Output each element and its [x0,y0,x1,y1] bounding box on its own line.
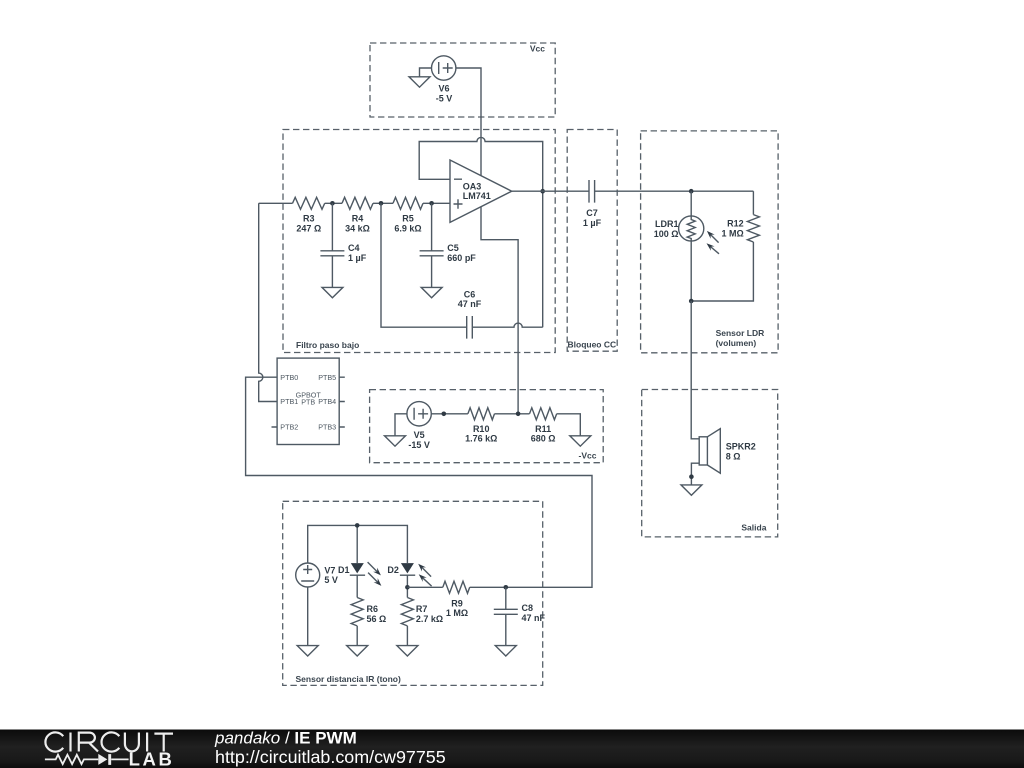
svg-text:V6: V6 [438,83,449,93]
V5 labels [408,430,430,450]
OA3 labels [463,181,491,201]
resistor R4 [342,197,373,209]
wire R9 to C8 node [470,586,506,588]
svg-text:680 Ω: 680 Ω [531,434,556,444]
node dot op-amp output [540,189,545,194]
R3 labels [296,214,321,234]
svg-text:R11: R11 [535,424,551,434]
svg-text:Salida: Salida [741,523,766,533]
pin PTB2 label [280,423,298,432]
svg-text:http://circuitlab.com/cw97755: http://circuitlab.com/cw97755 [215,747,446,767]
svg-text:-Vcc: -Vcc [579,451,597,461]
C4 labels [348,243,367,263]
svg-text:Sensor LDR: Sensor LDR [716,328,765,338]
svg-text:C7: C7 [586,208,598,218]
ground (C5) [421,287,442,297]
Filtro paso bajo label [296,340,359,350]
svg-text:OA3: OA3 [463,181,482,191]
svg-text:1 MΩ: 1 MΩ [446,608,468,618]
CircuitLab logo resistor-diode line [45,754,129,765]
capacitor C6 wire [381,203,543,338]
svg-text:R6: R6 [367,604,379,614]
resistor R5 [393,197,423,209]
svg-text:34 kΩ: 34 kΩ [345,223,370,233]
wire D2 node to R9 [407,586,442,588]
node dot LDR bottom [689,299,694,304]
svg-text:100 Ω: 100 Ω [654,229,679,239]
pin PTB0 label [280,373,298,382]
wire V6 to ground [420,68,432,77]
wire R7 to ground [406,626,408,646]
Sensor distancia IR (tono) dashed box [283,501,543,685]
svg-text:56 Ω: 56 Ω [367,614,387,624]
node dot LDR top [689,189,694,194]
Sensor LDR (volumen) label [716,328,765,348]
ground (V5) [385,436,406,446]
svg-text:LAB: LAB [129,748,175,768]
svg-text:LM741: LM741 [463,191,491,201]
svg-text:Vcc: Vcc [530,44,545,54]
svg-text:247 Ω: 247 Ω [296,223,321,233]
node dot D1 top [355,523,360,528]
svg-text:6.9 kΩ: 6.9 kΩ [394,223,421,233]
wire input rail segments [259,202,450,204]
wire V6 output down to op-amp V+ [456,68,481,176]
node dot R5/op-amp/C5 [429,201,434,206]
Filtro paso bajo dashed box [283,130,555,353]
node dot after V5 [442,412,447,417]
svg-text:(volumen): (volumen) [716,338,757,348]
R9 labels [446,598,468,618]
svg-text:PTB1: PTB1 [280,397,298,406]
-Vcc dashed box [370,390,604,463]
node dot above speaker ground [689,474,694,479]
node dot D2/R7/R9 [405,585,410,590]
LDR1 light arrows [707,231,720,254]
GPBOT labels [296,390,322,406]
D1 label [338,565,350,575]
C6 labels [458,289,482,309]
R10 labels [465,424,497,444]
R11 labels [531,424,556,444]
svg-text:PTB3: PTB3 [318,423,336,432]
svg-text:-15 V: -15 V [408,440,430,450]
node dot R3/R4/C4 [330,201,335,206]
resistor R6 [351,598,363,626]
CircuitLab logo text CIRCUIT (stroked) [45,732,173,751]
svg-text:PTB2: PTB2 [280,423,298,432]
wire input rail down to PTB1 (hop over PTB0 wire) [259,203,277,401]
connector GPBOT PTB [272,358,345,444]
R7 labels [416,604,443,624]
svg-text:D1: D1 [338,565,350,575]
R5 labels [394,214,421,234]
feedback wire output to inverting input (hop over Vcc wire) [419,137,543,327]
pin PTB1 label [280,397,298,406]
svg-text:R3: R3 [303,214,315,224]
voltage source V6 [432,56,456,80]
op-amp OA3 triangle [450,160,512,222]
photodiode D2 [400,563,415,575]
capacitor C8 [494,587,518,645]
wire R6 to ground [356,626,358,646]
svg-text:PTB5: PTB5 [318,373,336,382]
svg-text:1 µF: 1 µF [348,253,367,263]
-Vcc label [579,451,597,461]
capacitor C5 [420,203,444,287]
LDR1 photoresistor [679,191,704,301]
D2 reception arrows [418,564,431,586]
ground (V7) [297,646,318,656]
node dot R4/R5/C6 [379,201,384,206]
svg-text:660 pF: 660 pF [447,253,476,263]
wire V5 to ground [395,414,407,436]
svg-text:C6: C6 [464,289,476,299]
node dot R9/C8 [504,585,509,590]
svg-text:R7: R7 [416,604,428,614]
svg-text:R4: R4 [352,214,364,224]
svg-text:2.7 kΩ: 2.7 kΩ [416,614,443,624]
footer url [215,747,446,767]
Sensor distancia IR (tono) label [296,674,401,684]
svg-text:PTB0: PTB0 [280,373,298,382]
svg-text:C8: C8 [522,603,534,613]
Bloqueo CC label [568,340,617,350]
Salida dashed box [642,390,778,537]
svg-text:V5: V5 [414,430,425,440]
svg-text:R9: R9 [451,598,463,608]
wire V7 top rail to diodes [308,525,408,563]
svg-text:PTB4: PTB4 [318,397,336,406]
resistor R7 [401,598,413,626]
svg-text:C5: C5 [447,243,459,253]
footer title pandako / IE PWM [214,729,357,748]
op-amp negative supply wire down to -Vcc rail [481,207,518,414]
LED D1 [350,563,365,575]
svg-text:V7: V7 [324,565,335,575]
output rail through C7 [512,180,754,203]
wire D1 to R6 [356,575,358,597]
svg-text:47 nF: 47 nF [522,613,546,623]
wire LDR node down to speaker [691,301,699,439]
wire speaker bottom to ground [691,463,699,485]
ground (C4) [322,287,343,297]
svg-text:Filtro paso bajo: Filtro paso bajo [296,340,359,350]
svg-text:C4: C4 [348,243,360,253]
ground (R6) [347,646,368,656]
capacitor C4 [320,203,344,287]
ground (speaker) [681,485,702,495]
Sensor LDR dashed box [641,131,779,353]
voltage source V5 [407,402,431,426]
svg-text:5 V: 5 V [324,575,338,585]
CircuitLab logo text LAB [129,748,175,768]
svg-text:Bloqueo CC: Bloqueo CC [568,340,617,350]
footer bar [0,730,1024,768]
resistor R3 [293,197,325,209]
svg-text:R5: R5 [402,214,414,224]
V6 labels [436,83,453,103]
wire PTB0 around to IR sensor output [246,377,592,587]
D1 emission arrows [368,562,382,586]
svg-text:R10: R10 [473,424,490,434]
pin PTB4 label [318,397,336,406]
Vcc box label [530,44,545,54]
voltage source V7 [296,563,320,587]
svg-text:D2: D2 [387,565,399,575]
pin PTB5 label [318,373,336,382]
resistor R9 [443,581,470,593]
resistor R12 branch [691,191,759,301]
wire R11 to ground [557,414,581,436]
ground (V6) [409,77,430,87]
Bloqueo CC dashed box [567,130,617,352]
svg-text:1.76 kΩ: 1.76 kΩ [465,434,497,444]
svg-text:LDR1: LDR1 [655,219,679,229]
resistor R11 [530,408,557,420]
svg-text:pandako / IE PWM: pandako / IE PWM [214,729,357,748]
R12 labels [721,219,743,239]
svg-text:Sensor distancia IR (tono): Sensor distancia IR (tono) [296,674,401,684]
wire R10 to R11 [495,413,530,415]
C8 labels [522,603,546,623]
svg-text:47 nF: 47 nF [458,299,482,309]
svg-text:-5 V: -5 V [436,93,453,103]
ground (R7) [397,646,418,656]
svg-text:SPKR2: SPKR2 [726,442,756,452]
R4 labels [345,214,370,234]
R6 labels [367,604,387,624]
wire V5 to R10 [431,413,468,415]
Salida label [741,523,766,533]
Vcc dashed box [370,43,555,117]
C5 labels [447,243,476,263]
SPKR2 labels [726,442,756,462]
svg-text:1 MΩ: 1 MΩ [721,229,743,239]
LDR1 labels [654,219,679,239]
V7 labels [324,565,338,585]
speaker SPKR2 [699,429,720,474]
resistor R10 [468,408,495,420]
C7 labels [583,208,602,228]
svg-text:PTB: PTB [301,398,315,407]
D2 label [387,565,399,575]
node dot -Vcc rail [516,412,521,417]
svg-text:R12: R12 [727,219,744,229]
pin PTB3 label [318,423,336,432]
ground (R11) [570,436,591,446]
ground (C8) [495,646,516,656]
wire D2 to node [406,575,408,597]
svg-text:8 Ω: 8 Ω [726,451,741,461]
svg-text:1 µF: 1 µF [583,218,602,228]
wire V7 to ground [307,587,309,646]
